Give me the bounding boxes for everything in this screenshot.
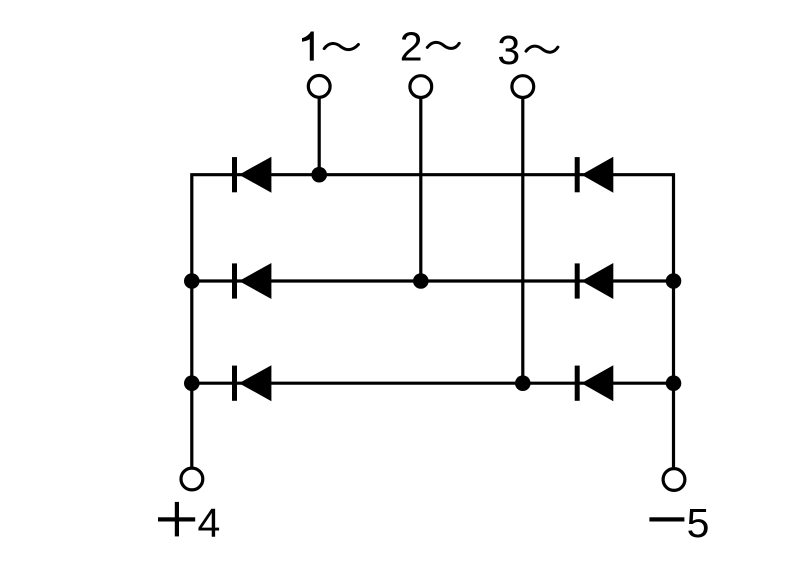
svg-text:2: 2 (400, 23, 423, 69)
svg-text:4: 4 (197, 500, 220, 546)
svg-text:5: 5 (687, 500, 710, 546)
svg-text:3: 3 (497, 27, 520, 73)
